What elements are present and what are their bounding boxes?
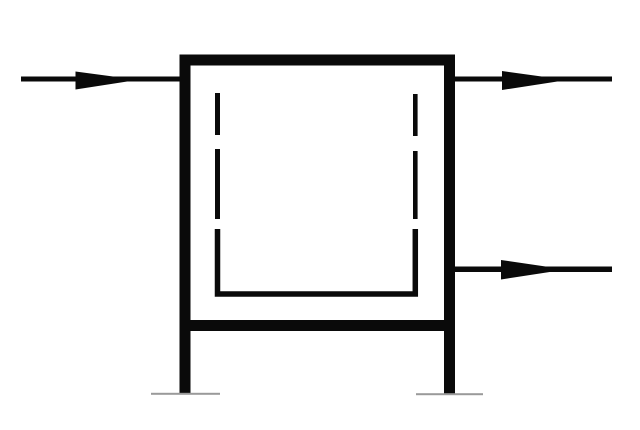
dashed control surface, right vertical xyxy=(413,94,418,219)
inlet arrowhead xyxy=(76,72,139,90)
outlet arrowhead 1 xyxy=(502,71,567,90)
left support leg xyxy=(180,325,191,394)
outer box (system enclosure) xyxy=(185,60,450,326)
inlet wire (left input line) xyxy=(21,77,181,82)
right ground line xyxy=(416,393,483,395)
outlet arrowhead 2 xyxy=(501,260,566,280)
left ground line xyxy=(151,393,220,395)
dashed control surface, left vertical xyxy=(215,93,220,219)
control surface bottom U corner xyxy=(218,229,416,294)
outlet wire 2 (bottom right line) xyxy=(452,267,612,273)
right support leg xyxy=(444,325,455,394)
outlet wire 1 (top right line) xyxy=(452,77,612,82)
